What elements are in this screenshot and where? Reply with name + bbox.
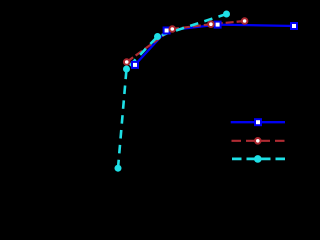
red circle markers: [124, 18, 248, 65]
legend cyan entry: [232, 155, 285, 163]
legend blue entry: [231, 119, 285, 125]
red dashed curve: [127, 21, 245, 62]
cyan dashed curve: [118, 14, 227, 168]
legend red entry: [232, 138, 285, 144]
blue square markers: [132, 22, 297, 68]
cyan filled markers: [115, 11, 231, 172]
blue solid curve: [135, 25, 294, 65]
